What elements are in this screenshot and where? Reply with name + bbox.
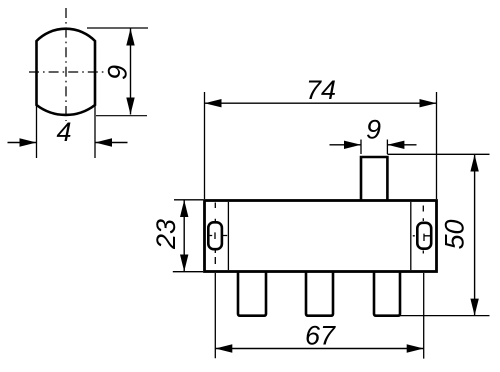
left mounting slot: [208, 222, 222, 249]
dimension 74 left arrowhead: [205, 99, 222, 107]
dimension 9 bottom arrowhead: [126, 98, 134, 115]
vertical centerline of cross-section: [65, 8, 67, 121]
horizontal centerline of cross-section: [29, 71, 106, 73]
dimension 4 left arrowhead: [20, 138, 37, 146]
dimension 50 bottom arrowhead: [470, 299, 478, 316]
svg-text:23: 23: [151, 219, 181, 250]
dimension 74 right arrowhead: [420, 99, 437, 107]
right slot horizontal centerline dashes: [413, 235, 431, 237]
dimension 67 left arrowhead: [215, 344, 232, 352]
svg-text:4: 4: [56, 117, 71, 147]
right mounting slot: [417, 223, 431, 249]
left slot vertical centerline dashes: [214, 203, 216, 265]
left end-plate line: [227, 202, 229, 270]
extension lines for dimension 67: [215, 273, 423, 359]
dimension 4 line: [8, 142, 128, 144]
dimension 9 line (vertical): [130, 29, 132, 115]
dimension 9 top arrowhead: [126, 29, 134, 46]
svg-text:9: 9: [103, 65, 133, 80]
pin leg 1: [238, 271, 266, 316]
dimension 23 bottom arrowhead: [180, 255, 188, 272]
actuator cross-section outline (detail view, top-left): [37, 29, 96, 115]
dimension 4 right arrowhead: [95, 138, 112, 146]
extension lines for dimension 4: [37, 106, 96, 158]
extension lines for dimension 74: [205, 92, 437, 199]
left slot horizontal centerline dashes: [210, 235, 228, 237]
dimension 50 line: [474, 155, 476, 316]
dimension 50 top arrowhead: [470, 155, 478, 172]
dimension 74 line: [205, 102, 437, 104]
extension lines for dimension 9 (tab width): [361, 140, 387, 155]
svg-text:9: 9: [366, 115, 381, 145]
dimension 67 right arrowhead: [407, 344, 424, 352]
switch body rectangle (main view): [205, 201, 437, 272]
dimension 9 tab line: [330, 144, 417, 146]
dimension 67 line: [215, 348, 423, 350]
svg-text:67: 67: [305, 321, 336, 351]
right slot vertical centerline dashes: [422, 206, 425, 254]
dimension 23 line: [183, 200, 185, 272]
pin leg 2: [306, 271, 333, 316]
right end-plate line: [410, 202, 412, 270]
extension lines for dimension 50: [387, 154, 489, 315]
tab dimension right arrowhead: [387, 141, 404, 149]
tab dimension left arrowhead: [344, 141, 361, 149]
dimension 23 top arrowhead: [180, 200, 188, 217]
top tab (actuator): [361, 157, 387, 200]
svg-text:74: 74: [306, 75, 336, 105]
svg-text:50: 50: [440, 219, 470, 249]
pin leg 3: [374, 271, 400, 316]
extension lines for dimension 23: [173, 200, 203, 272]
extension lines for dimension 9 (cross-section height): [87, 27, 148, 29]
